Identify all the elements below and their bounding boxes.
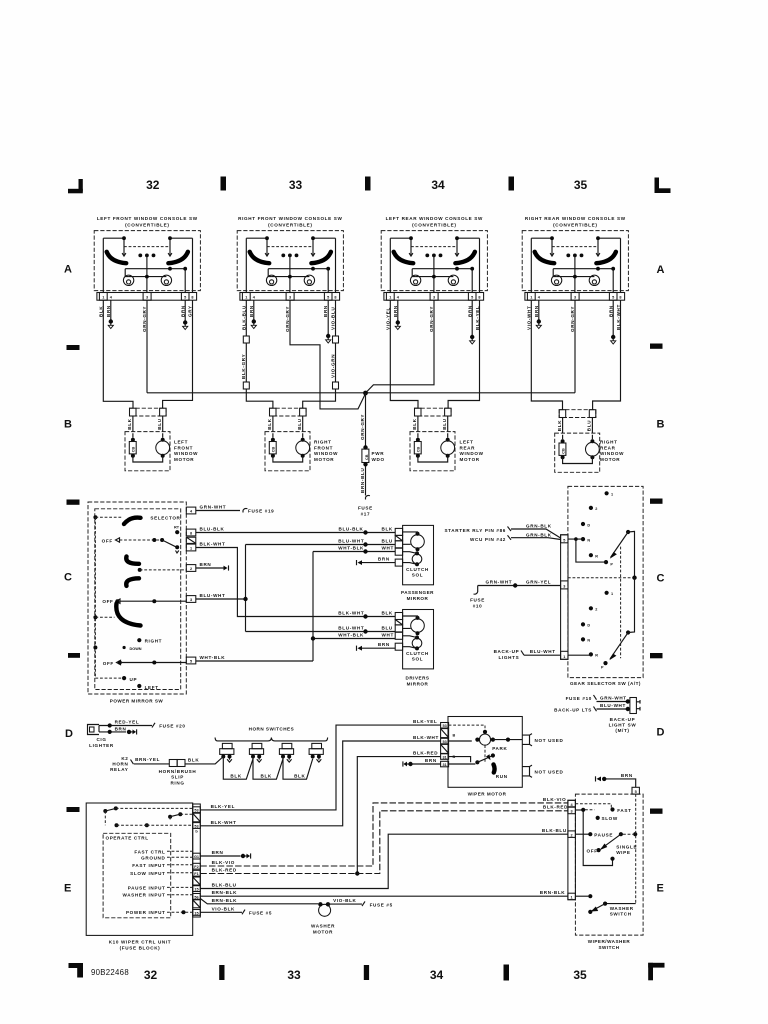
svg-text:R: R [595, 654, 598, 658]
S1 wire GRY pin8 to motor M1 [163, 300, 193, 408]
svg-text:NOT USED: NOT USED [535, 738, 564, 743]
svg-text:RELAY: RELAY [110, 767, 128, 772]
svg-text:WHT: WHT [382, 546, 394, 551]
svg-text:PWR: PWR [372, 451, 385, 456]
svg-text:SLIP: SLIP [171, 775, 184, 780]
svg-text:FUSE: FUSE [358, 506, 373, 511]
wiper washer switch pin strip [568, 787, 640, 899]
svg-text:BRN: BRN [115, 726, 127, 731]
svg-text:HORN SWITCHES: HORN SWITCHES [249, 727, 295, 732]
svg-text:BLK-VIO: BLK-VIO [543, 797, 566, 802]
gear selector upper bank pin5 wiring [568, 539, 606, 562]
svg-text:CIG: CIG [96, 737, 106, 742]
svg-text:WINDOW: WINDOW [460, 451, 484, 456]
wiper washer switch FAST contact [575, 804, 631, 813]
svg-text:P: P [610, 562, 613, 566]
cig lighter symbol [88, 725, 100, 735]
svg-text:UP: UP [130, 677, 138, 682]
svg-text:VIO-GRN: VIO-GRN [330, 354, 335, 378]
motor M1 LEFT FRONT WINDOW MOTOR [125, 408, 170, 471]
switch S1 LEFT FRONT WINDOW CONSOLE SW [94, 231, 200, 301]
wiper washer switch label [588, 939, 631, 950]
svg-text:BLK-RED: BLK-RED [413, 750, 438, 755]
wire BLK-WHT K10 to wiper motor [200, 735, 440, 826]
wiper washer switch SLOW contact [596, 816, 618, 821]
wire BRN wiper motor ground [403, 758, 441, 767]
svg-text:FUSE: FUSE [470, 598, 485, 603]
horn brush slip ring connector [169, 760, 185, 767]
svg-text:32: 32 [144, 968, 158, 982]
svg-text:HORN/BRUSH: HORN/BRUSH [159, 769, 197, 774]
svg-text:LEFT REAR WINDOW CONSOLE SW: LEFT REAR WINDOW CONSOLE SW [386, 216, 483, 221]
wiper washer switch single wipe loop [583, 812, 614, 866]
svg-text:GRN-WHT: GRN-WHT [200, 505, 227, 510]
S2 wire BLK-BLU / BLK-GRY pin1 to motor M2 [246, 300, 273, 408]
gear selector mech link [620, 547, 622, 659]
svg-text:34: 34 [430, 968, 444, 982]
gear selector pin strip [561, 535, 568, 660]
horn switch H4 [309, 743, 323, 762]
svg-text:BRN-BLK: BRN-BLK [212, 890, 238, 895]
gear selector switch box [568, 486, 643, 677]
svg-text:FRONT: FRONT [174, 445, 193, 450]
svg-text:BLK: BLK [188, 758, 199, 763]
svg-text:BRN: BRN [621, 773, 633, 778]
S4 ground BRN pin5 [612, 300, 614, 335]
wire WHT-BLK pin5 to both mirrors [196, 546, 395, 661]
svg-text:VIO-BLK: VIO-BLK [333, 898, 356, 903]
wiper washer switch blade [587, 832, 638, 853]
switch S1 title [97, 216, 198, 227]
svg-text:F2: F2 [194, 865, 198, 869]
wire BLK-VIO K10 to wiper washer switch [200, 797, 568, 866]
horn switches brace [215, 738, 328, 741]
svg-text:RING: RING [170, 780, 184, 785]
power mirror switch pin2 contact [138, 568, 187, 572]
S4 wire labels [526, 304, 621, 332]
horn switch H1 [220, 743, 234, 762]
svg-text:HORN: HORN [112, 761, 128, 766]
power mirror switch big arc [116, 604, 140, 626]
S2 splice on pin1 wire [243, 336, 249, 343]
svg-text:1: 1 [611, 493, 613, 497]
wire BRN passenger mirror stub [357, 556, 396, 565]
svg-text:BRN-BLU: BRN-BLU [360, 467, 365, 493]
svg-text:56: 56 [194, 895, 198, 899]
fuse #17 symbol [366, 495, 370, 499]
motor M4 RIGHT REAR WINDOW MOTOR [555, 410, 600, 473]
svg-text:BLU: BLU [382, 625, 393, 630]
wiper washer switch box [575, 794, 643, 935]
svg-text:BLU-WHT: BLU-WHT [338, 538, 364, 543]
svg-text:BLK: BLK [294, 774, 305, 779]
svg-text:WHT-BLK: WHT-BLK [338, 632, 364, 637]
wire BLK horn bus 1 [223, 757, 253, 780]
horn switch H2 [249, 743, 263, 762]
svg-text:BRN: BRN [200, 562, 212, 567]
svg-text:DOWN: DOWN [130, 647, 142, 651]
washer motor label [311, 924, 335, 935]
svg-text:RIGHT: RIGHT [314, 440, 332, 445]
svg-text:B: B [64, 419, 72, 431]
power mirror switch inner box [95, 509, 181, 690]
svg-text:RIGHT FRONT WINDOW CONSOLE SW: RIGHT FRONT WINDOW CONSOLE SW [238, 216, 342, 221]
wire RED-YEL to fuse 20 [99, 719, 186, 728]
svg-text:BLK-WHT: BLK-WHT [338, 610, 364, 615]
svg-text:R: R [595, 555, 598, 559]
svg-text:BACK-UP LTS: BACK-UP LTS [554, 708, 592, 713]
K10 label [109, 940, 172, 951]
svg-text:BLK-WHT: BLK-WHT [413, 735, 439, 740]
svg-text:FUSE #5: FUSE #5 [370, 902, 393, 907]
column numbers top [146, 178, 587, 192]
wire BLK horn bus 2 [253, 757, 283, 780]
svg-text:D: D [657, 727, 665, 739]
svg-text:MOTOR: MOTOR [313, 929, 333, 934]
svg-text:FUSE #19: FUSE #19 [248, 508, 274, 513]
svg-text:WCU PIN #42: WCU PIN #42 [470, 537, 506, 542]
svg-text:VIO-YEL: VIO-YEL [385, 307, 390, 330]
S2 wire VIO-BLU / VIO-GRN pin8 to motor M2 [303, 300, 336, 408]
S3 wire BLK-YEL pin8 to motor M3 [448, 300, 479, 408]
mirror unit PASSENGER MIRROR [395, 525, 433, 584]
svg-text:E: E [657, 883, 664, 895]
svg-text:PAUSE: PAUSE [594, 833, 613, 838]
svg-text:SWITCH: SWITCH [598, 945, 619, 950]
wiper motor interior [449, 725, 523, 779]
svg-text:LEFT FRONT WINDOW CONSOLE SW: LEFT FRONT WINDOW CONSOLE SW [97, 216, 198, 221]
wiper motor not used connector 2 [522, 765, 563, 777]
frame corner bottom-left [69, 963, 84, 978]
svg-text:RUN: RUN [496, 774, 508, 779]
S1 ground BRN pin4 [110, 300, 112, 320]
S3 ground BRN pin5 [471, 300, 473, 335]
switch S2 title [238, 216, 342, 227]
svg-text:STARTER RLY PIN #86: STARTER RLY PIN #86 [444, 528, 506, 533]
mirror unit DRIVERS MIRROR [395, 610, 433, 669]
motor M2 RIGHT FRONT WINDOW MOTOR [265, 408, 310, 471]
svg-text:BLU-WHT: BLU-WHT [200, 593, 226, 598]
svg-text:LIGHTS: LIGHTS [499, 655, 520, 660]
svg-text:1: 1 [611, 592, 613, 596]
svg-text:FUSE #10: FUSE #10 [566, 696, 592, 701]
wire GRN-WHT pin4 to fuse 19 [196, 505, 240, 511]
wire GRN-GRY bus [147, 392, 575, 394]
svg-text:BLK-GRY: BLK-GRY [241, 354, 246, 379]
svg-text:2: 2 [571, 833, 573, 837]
wire BLK-WHT pin1 to drivers mirror [196, 541, 395, 618]
svg-text:FUSE #5: FUSE #5 [249, 911, 272, 916]
svg-text:N: N [587, 639, 590, 643]
gear selector upper blade [610, 530, 635, 578]
svg-text:BLK: BLK [382, 610, 393, 615]
S1 wire BLK pin1 to motor M1 [103, 300, 133, 408]
svg-text:A: A [64, 264, 72, 276]
label FUSE #10 backup [566, 695, 597, 701]
svg-text:E: E [64, 883, 71, 895]
label WASHER SWITCH [610, 906, 634, 917]
svg-text:(CONVERTIBLE): (CONVERTIBLE) [412, 222, 456, 227]
power mirror switch left common line [93, 515, 122, 678]
wire GRN-BLK to gear selector pin5 lower [511, 532, 561, 539]
svg-text:SLOW INPUT: SLOW INPUT [130, 871, 165, 876]
wiper washer switch PAUSE contact [575, 832, 613, 837]
wire GRN-GRY drop to PWR WDO [365, 393, 367, 446]
svg-text:WHT-BLK: WHT-BLK [338, 546, 364, 551]
svg-text:35: 35 [573, 968, 587, 982]
power mirror switch selector arc [124, 518, 141, 524]
switch S4 title [525, 216, 626, 227]
svg-text:MOTOR: MOTOR [460, 457, 480, 462]
power mirror switch arc 2 [126, 557, 139, 564]
svg-text:C: C [657, 573, 665, 585]
svg-text:MIRROR: MIRROR [407, 682, 429, 687]
wire BRN drivers mirror stub [357, 642, 396, 651]
svg-text:1: 1 [190, 547, 192, 551]
svg-text:A: A [657, 264, 665, 276]
gear selector mid separator [568, 577, 635, 579]
horn brush slip ring label [159, 769, 197, 786]
svg-text:5: 5 [563, 538, 565, 542]
switch S3 LEFT REAR WINDOW CONSOLE SW [381, 231, 487, 301]
svg-text:WIPER/WASHER: WIPER/WASHER [588, 939, 631, 944]
svg-text:OFF: OFF [587, 849, 598, 854]
svg-text:33: 33 [289, 178, 303, 192]
svg-text:(CONVERTIBLE): (CONVERTIBLE) [268, 222, 312, 227]
svg-text:RED-YEL: RED-YEL [115, 719, 140, 724]
svg-text:DRIVERS: DRIVERS [406, 676, 430, 681]
wire BRN cig lighter ground [99, 726, 137, 734]
svg-text:BRN-BLK: BRN-BLK [540, 890, 566, 895]
wire VIO-BLK washer motor to fuse 5 [328, 898, 393, 907]
svg-text:PARK: PARK [492, 746, 507, 751]
K10 input labels [122, 849, 192, 915]
wire BRN-BLK K10 to washer motor [200, 898, 318, 904]
svg-text:2: 2 [190, 567, 192, 571]
svg-text:BRN-YEL: BRN-YEL [135, 757, 160, 762]
label BACK-UP LTS [554, 707, 596, 713]
svg-text:BLK: BLK [261, 774, 272, 779]
svg-text:BLU: BLU [382, 538, 393, 543]
svg-text:WINDOW: WINDOW [174, 451, 198, 456]
power mirror switch mid link [93, 615, 114, 619]
svg-text:BLK-WHT: BLK-WHT [200, 541, 226, 546]
svg-text:GROUND: GROUND [141, 855, 165, 860]
svg-text:34: 34 [431, 178, 445, 192]
backup light switch connector [630, 698, 640, 714]
circuit breaker PWR WDO [362, 445, 385, 466]
svg-text:BLK: BLK [382, 526, 393, 531]
gear selector upper bank positions [581, 491, 614, 566]
svg-text:GRN-WHT: GRN-WHT [486, 580, 513, 585]
fuse #19 symbol [243, 508, 274, 513]
washer motor [318, 902, 330, 916]
svg-text:1: 1 [571, 896, 573, 900]
cig lighter label [89, 737, 114, 748]
svg-text:31: 31 [442, 756, 446, 760]
svg-text:MOTOR: MOTOR [174, 457, 194, 462]
power mirror switch RT contact [174, 526, 180, 535]
svg-text:GRN-GRY: GRN-GRY [360, 414, 365, 440]
wiper washer switch right rail [635, 794, 637, 904]
power mirror switch arc 3 [126, 578, 139, 586]
svg-text:WHT-BLK: WHT-BLK [200, 655, 226, 660]
svg-text:BRN: BRN [378, 556, 390, 561]
svg-text:WASHER INPUT: WASHER INPUT [122, 893, 165, 898]
svg-text:BRN-BLK: BRN-BLK [212, 898, 238, 903]
backup light switch label [609, 717, 637, 733]
S2 splice lower on pin1 wire [243, 382, 249, 389]
S2 wire labels [241, 305, 335, 332]
wiper motor box [448, 717, 522, 788]
svg-text:BLK-WHT: BLK-WHT [211, 820, 237, 825]
wiper washer switch pin1 contact [575, 894, 592, 898]
svg-text:POWER INPUT: POWER INPUT [126, 910, 166, 915]
svg-text:35: 35 [574, 178, 588, 192]
wire BRN-YEL to slip ring [134, 757, 169, 764]
wiper washer switch pin3 contact [575, 808, 594, 812]
label STARTER RLY PIN 86 [444, 527, 511, 534]
S3 wire labels [385, 305, 480, 332]
svg-text:BLK-RED: BLK-RED [212, 868, 237, 873]
power mirror switch OFF row 2 [102, 599, 186, 604]
svg-text:(FUSE BLOCK): (FUSE BLOCK) [120, 945, 161, 950]
svg-text:BLK-BLU: BLK-BLU [241, 305, 246, 330]
gear selector lower blade [609, 578, 634, 661]
svg-text:SELECTOR: SELECTOR [150, 516, 180, 521]
svg-text:FAST: FAST [617, 808, 631, 813]
fuse #10 drop [470, 586, 485, 609]
gear selector lower bank positions [581, 591, 613, 670]
svg-text:REAR: REAR [600, 445, 616, 450]
S4 wire BLK-WHT pin8 to motor M4 [593, 300, 621, 410]
svg-text:BRN: BRN [212, 850, 224, 855]
svg-text:BRN: BRN [425, 758, 437, 763]
power mirror switch RIGHT contact [137, 638, 162, 643]
svg-text:LIGHTER: LIGHTER [89, 743, 114, 748]
svg-text:GRN-BLK: GRN-BLK [526, 524, 552, 529]
horn switch H3 [279, 743, 293, 762]
svg-text:K10 WIPER CTRL UNIT: K10 WIPER CTRL UNIT [109, 940, 172, 945]
label K2 HORN RELAY [110, 756, 133, 772]
svg-text:3: 3 [563, 584, 565, 588]
svg-text:C: C [64, 572, 72, 584]
svg-text:BLK-VIO: BLK-VIO [212, 860, 235, 865]
svg-text:REAR: REAR [460, 445, 476, 450]
wire BLK-BLU K10 to wiper washer switch [200, 828, 568, 888]
svg-text:OFF: OFF [102, 599, 113, 604]
K10 interior switches [103, 806, 192, 827]
wire GRN-WHT to backup light sw [597, 695, 631, 703]
svg-text:K2: K2 [121, 756, 128, 761]
wire BLU-BLK pin8 to passenger mirror [196, 526, 395, 534]
S1 ground BRN pin5 [184, 300, 186, 321]
frame corner top-right [655, 178, 671, 194]
svg-text:B: B [453, 734, 456, 738]
wire BRN-BLU to fuse 17 [365, 466, 367, 496]
svg-text:D: D [587, 523, 590, 527]
wire BLU-WHT to gear selector pin1 [524, 649, 561, 655]
svg-text:MIRROR: MIRROR [407, 596, 429, 601]
S4 ground BRN pin4 [538, 300, 540, 320]
label WCU PIN 42 [470, 535, 511, 542]
row letters right [657, 264, 665, 895]
svg-text:D: D [65, 728, 73, 740]
svg-text:N: N [587, 538, 590, 542]
motor M3 LEFT REAR WINDOW MOTOR [410, 408, 455, 471]
K10 wiper ctrl unit box [86, 803, 193, 935]
wiper washer switch washer contact [588, 902, 636, 915]
svg-text:B: B [657, 419, 665, 431]
svg-text:VIO-WHT: VIO-WHT [526, 306, 531, 330]
svg-text:WDO: WDO [372, 457, 385, 462]
svg-text:BLK-RED: BLK-RED [543, 805, 568, 810]
svg-text:GRN-YEL: GRN-YEL [526, 580, 551, 585]
svg-text:2: 2 [595, 608, 597, 612]
svg-text:15: 15 [194, 911, 198, 915]
K10 operate ctrl box [103, 833, 171, 918]
svg-text:53: 53 [194, 825, 198, 829]
svg-text:SWITCH: SWITCH [610, 911, 632, 916]
svg-text:WIPER MOTOR: WIPER MOTOR [468, 792, 507, 797]
svg-text:NOT USED: NOT USED [535, 770, 564, 775]
svg-text:GRN-BLK: GRN-BLK [526, 532, 552, 537]
svg-text:OPERATE CTRL: OPERATE CTRL [106, 836, 149, 841]
wire VIO-BLK K10 to fuse 5 [200, 906, 272, 915]
label BACK-UP LIGHTS [494, 649, 524, 660]
svg-text:POWER MIRROR SW: POWER MIRROR SW [110, 699, 164, 704]
label SINGLE WIPE [616, 844, 637, 855]
S3 wire GRN-GRY pin3 to junction [366, 300, 435, 393]
power mirror switch LEFT contact [137, 684, 158, 690]
svg-text:BLU-WHT: BLU-WHT [338, 625, 364, 630]
svg-text:GEAR SELECTOR SW (A/T): GEAR SELECTOR SW (A/T) [570, 681, 641, 686]
svg-text:VIO-BLK: VIO-BLK [212, 906, 235, 911]
svg-text:WINDOW: WINDOW [314, 451, 338, 456]
svg-text:SINGLE: SINGLE [616, 844, 637, 849]
svg-text:LIGHT SW: LIGHT SW [609, 723, 637, 728]
S3 wire VIO-YEL pin1 to motor M3 [390, 300, 418, 408]
svg-text:WINDOW: WINDOW [600, 451, 624, 456]
svg-text:WHT: WHT [382, 632, 394, 637]
bottom column ticks [219, 965, 509, 981]
svg-text:5: 5 [635, 790, 637, 794]
svg-text:53: 53 [442, 740, 446, 744]
S2 ground BRN pin4 [253, 300, 255, 320]
svg-text:FAST CTRL: FAST CTRL [134, 849, 165, 854]
svg-text:53: 53 [194, 809, 198, 813]
svg-text:(CONVERTIBLE): (CONVERTIBLE) [553, 222, 597, 227]
power mirror switch DOWN contact [93, 646, 141, 651]
wire BLU-WHT to backup light sw [597, 703, 631, 711]
S2 ground BRN pin5 [327, 300, 329, 334]
svg-text:BLK-BLU: BLK-BLU [542, 828, 567, 833]
power mirror switch UP contact [95, 676, 137, 682]
svg-text:PASSENGER: PASSENGER [401, 590, 434, 595]
junction GRN-GRY bus node [363, 391, 368, 396]
svg-text:1: 1 [563, 655, 565, 659]
wire BRN wiper washer switch ground [596, 773, 636, 787]
svg-text:OFF: OFF [102, 539, 113, 544]
svg-text:D: D [587, 624, 590, 628]
svg-text:BACK-UP: BACK-UP [610, 717, 636, 722]
svg-text:FRONT: FRONT [314, 445, 333, 450]
svg-text:G1: G1 [194, 855, 199, 859]
svg-text:(M/T): (M/T) [615, 728, 629, 733]
wire GRN-WHT GRN-YEL to gear selector pin3 [478, 580, 561, 588]
wire BLK-RED K10 to wiper washer switch [200, 805, 568, 874]
svg-text:53: 53 [442, 724, 446, 728]
